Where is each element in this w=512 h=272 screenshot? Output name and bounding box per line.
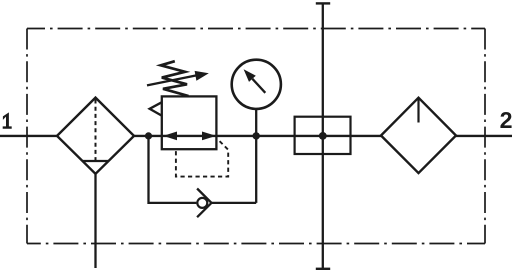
svg-text:2: 2 <box>500 107 512 133</box>
